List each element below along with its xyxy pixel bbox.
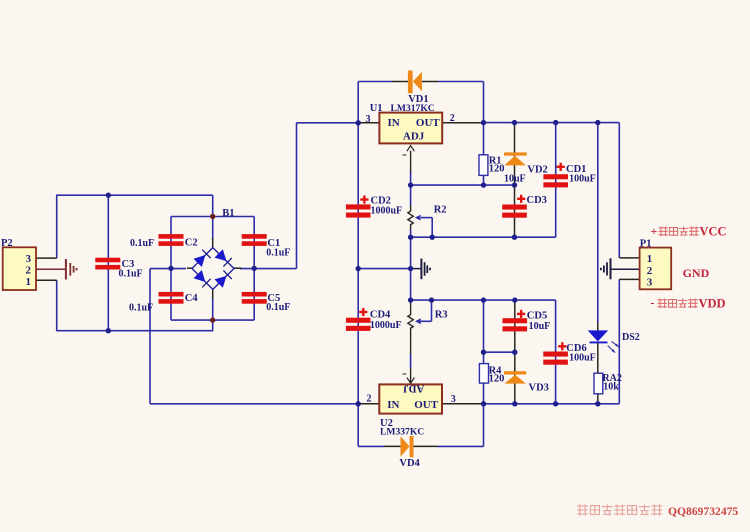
svg-text:B1: B1 [222,208,234,219]
svg-text:3: 3 [647,277,653,289]
svg-text:1: 1 [26,276,32,288]
svg-text:3: 3 [451,394,456,405]
svg-text:QQ869732475: QQ869732475 [668,505,738,518]
svg-text:U1: U1 [370,103,383,114]
svg-text:0.1uF: 0.1uF [129,303,153,314]
svg-text:CD3: CD3 [527,195,547,206]
svg-text:3: 3 [26,253,32,265]
svg-text:GND: GND [683,266,710,280]
svg-text:0.1uF: 0.1uF [266,302,290,313]
svg-text:ADJ: ADJ [403,131,425,143]
svg-text:100uF: 100uF [569,353,596,364]
svg-text:CD4: CD4 [370,310,391,321]
svg-text:CD5: CD5 [527,310,547,321]
svg-text:0.1uF: 0.1uF [130,238,154,249]
svg-text:ADJ: ADJ [403,383,425,395]
svg-text:R2: R2 [434,205,447,216]
svg-text:1: 1 [647,253,653,265]
svg-text:1000uF: 1000uF [371,206,403,217]
svg-text:0.1uF: 0.1uF [119,268,143,279]
svg-text:2: 2 [367,393,372,404]
svg-text:+: + [651,224,658,238]
svg-text:1000uF: 1000uF [370,320,402,331]
svg-text:C2: C2 [185,238,198,249]
svg-text:P1: P1 [640,238,652,249]
svg-text:OUT: OUT [414,399,439,411]
svg-text:10uF: 10uF [529,321,551,332]
svg-text:IN: IN [388,117,400,129]
svg-text:C4: C4 [185,293,199,304]
svg-text:2: 2 [26,264,32,276]
svg-text:OUT: OUT [416,117,441,129]
svg-text:LM337KC: LM337KC [380,427,424,438]
svg-text:2: 2 [647,265,653,277]
svg-text:VD2: VD2 [527,164,547,175]
svg-text:P2: P2 [1,238,13,249]
svg-text:-: - [651,296,655,310]
svg-text:3: 3 [366,114,371,125]
svg-text:120: 120 [489,374,505,385]
svg-text:2: 2 [450,113,455,124]
svg-text:VDD: VDD [699,297,726,311]
svg-text:VD1: VD1 [408,94,428,105]
svg-text:10uF: 10uF [504,174,526,185]
svg-text:IN: IN [387,399,399,411]
svg-text:DS2: DS2 [622,332,640,343]
svg-text:120: 120 [489,164,505,175]
svg-text:0.1uF: 0.1uF [266,247,290,258]
svg-text:100uF: 100uF [569,174,596,185]
svg-text:VCC: VCC [700,224,727,238]
svg-text:VD3: VD3 [529,383,549,394]
svg-text:R3: R3 [435,310,448,321]
svg-text:10k: 10k [603,382,619,393]
svg-text:VD4: VD4 [399,458,420,469]
